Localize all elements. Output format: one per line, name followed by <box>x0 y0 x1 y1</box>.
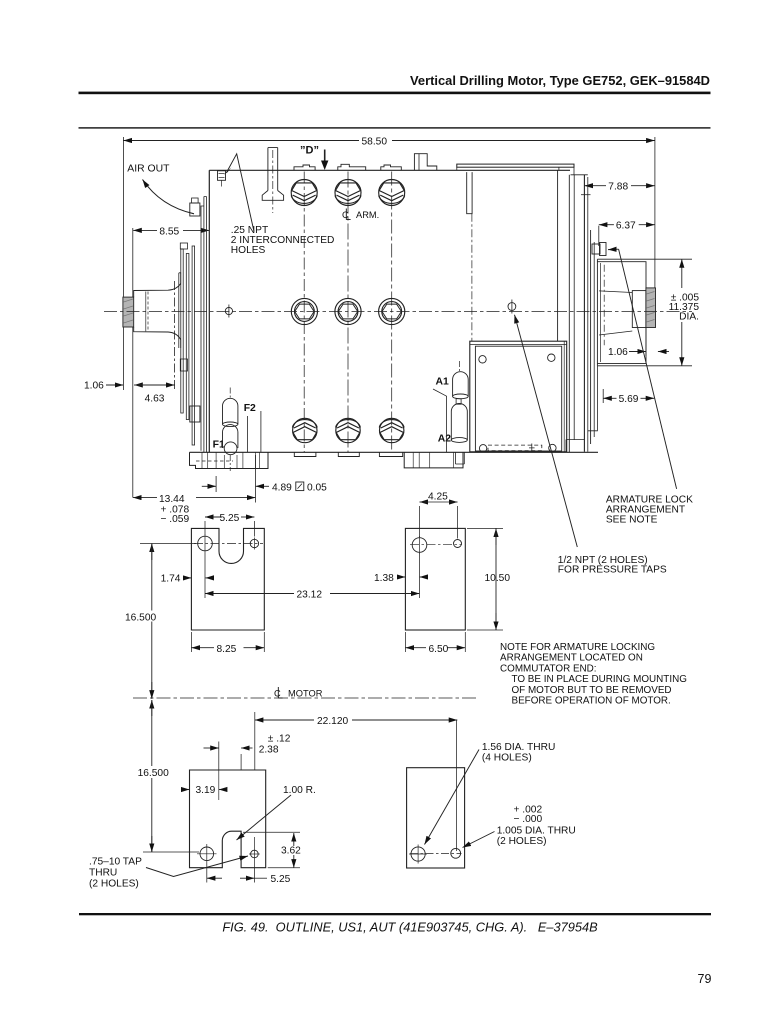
svg-text:3.62: 3.62 <box>281 846 301 857</box>
dim 22.120 <box>255 719 314 721</box>
bottom bolt 3 <box>379 418 404 442</box>
box dashed knockout <box>488 445 542 451</box>
big hole <box>200 847 214 861</box>
svg-text:4.63: 4.63 <box>145 394 165 405</box>
right plate small hole <box>454 540 462 548</box>
svg-text:(2 HOLES): (2 HOLES) <box>89 879 139 890</box>
svg-text:7.88: 7.88 <box>608 182 628 193</box>
br big hole <box>411 847 425 861</box>
end cap inner lines <box>599 291 632 293</box>
svg-text:± .12: ± .12 <box>268 734 291 745</box>
svg-text:.75–10 TAP: .75–10 TAP <box>89 857 142 868</box>
svg-text:1.56 DIA. THRU: 1.56 DIA. THRU <box>482 742 555 753</box>
dim 10.50 <box>495 528 497 545</box>
F lead lines <box>248 411 261 452</box>
svg-text:(4 HOLES): (4 HOLES) <box>482 753 532 764</box>
flange plate A <box>181 249 183 413</box>
left foot hidden line <box>196 460 233 462</box>
svg-text:F2: F2 <box>244 403 256 414</box>
cone section lines <box>145 292 147 332</box>
svg-text:Vertical Drilling Motor, Type: Vertical Drilling Motor, Type GE752, GEK… <box>410 73 710 88</box>
svg-text:16.500: 16.500 <box>125 613 156 624</box>
right foot verticals <box>413 452 453 468</box>
knockout cross <box>529 444 535 453</box>
svg-text:COMMUTATOR END:: COMMUTATOR END: <box>500 663 597 674</box>
A2 stud <box>451 404 467 441</box>
left foot <box>190 452 269 468</box>
flange plate D <box>201 206 204 451</box>
D down arrow <box>324 150 326 162</box>
end cap ring 1 <box>590 230 592 444</box>
svg-text:− .000: − .000 <box>514 814 543 825</box>
svg-text:ARM.: ARM. <box>356 210 379 220</box>
conduit box outer <box>470 341 567 452</box>
top bolt 1 <box>291 180 317 206</box>
bottom pads <box>294 452 402 456</box>
dim 4.89 sq 0.05 <box>202 485 216 487</box>
air out flow arrow <box>143 180 195 214</box>
bottom bolt 1 <box>292 418 317 442</box>
left plate small hole <box>250 539 258 547</box>
flange plate B <box>186 254 189 420</box>
dim 5.25 bottom <box>207 877 222 879</box>
svg-text:”D”: ”D” <box>300 145 319 157</box>
top bolt 3 <box>379 180 405 206</box>
svg-text:1.74: 1.74 <box>161 574 181 585</box>
left mounting plate <box>191 528 264 630</box>
F2 stud <box>223 398 238 424</box>
dim 5.69 <box>603 397 616 399</box>
plate holes centerline <box>194 543 263 545</box>
dim 16.500 lower <box>151 700 153 716</box>
svg-text:FOR PRESSURE TAPS: FOR PRESSURE TAPS <box>558 565 667 576</box>
ext line 8.55/13.44 <box>132 228 134 498</box>
svg-text:4.25: 4.25 <box>428 492 448 503</box>
svg-text:79: 79 <box>698 972 712 986</box>
svg-text:23.12: 23.12 <box>297 590 323 601</box>
dim 5.25 top <box>205 516 222 518</box>
top cover plate <box>457 164 574 167</box>
svg-text:2.38: 2.38 <box>259 745 279 756</box>
hub <box>632 291 646 328</box>
svg-text:1.00 R.: 1.00 R. <box>283 785 316 796</box>
body right edge <box>557 170 559 341</box>
bottom left plate <box>190 770 266 868</box>
svg-text:6.37: 6.37 <box>616 221 636 232</box>
top pad 1 <box>294 165 315 170</box>
svg-text:HOLES: HOLES <box>231 245 266 256</box>
svg-text:1.06: 1.06 <box>84 381 104 392</box>
br small hole <box>451 848 461 858</box>
conduit box right lines <box>563 341 565 452</box>
svg-text:THRU: THRU <box>89 868 117 879</box>
armature stub <box>646 288 656 328</box>
centerline marker left <box>225 307 232 314</box>
mid plug 1 <box>291 298 317 324</box>
dim 13.44 <box>133 497 157 499</box>
svg-text:22.120: 22.120 <box>317 716 348 727</box>
end frame foot <box>566 440 584 453</box>
F1 round end <box>224 442 237 455</box>
dim 11.375 DIA <box>681 259 683 288</box>
right mounting plate <box>405 528 465 630</box>
dim 3.62 <box>293 833 295 846</box>
right foot <box>404 452 463 468</box>
box screw BR <box>549 444 556 451</box>
leader V to npt boss <box>227 154 255 232</box>
svg-text:1.06: 1.06 <box>608 347 628 358</box>
box screw BL <box>479 445 486 452</box>
lifting lug <box>414 154 436 171</box>
svg-text:FIG. 49. OUTLINE, US1, AUT (4: FIG. 49. OUTLINE, US1, AUT (41E903745, C… <box>222 920 598 935</box>
svg-text:0.05: 0.05 <box>307 482 327 493</box>
svg-text:MOTOR: MOTOR <box>288 689 323 699</box>
svg-text:16.500: 16.500 <box>138 768 169 779</box>
svg-text:5.25: 5.25 <box>220 513 240 524</box>
box screw TL <box>479 356 486 363</box>
end frame tick <box>581 194 591 196</box>
right holes centerline <box>410 543 462 545</box>
MID_SECTION <box>125 492 687 707</box>
ext line shaft face <box>122 137 124 390</box>
top pad 2 <box>338 164 366 170</box>
dim 58.50 <box>123 140 359 142</box>
svg-text:NOTE FOR ARMATURE LOCKING: NOTE FOR ARMATURE LOCKING <box>500 642 655 653</box>
F stud centerline <box>229 388 231 399</box>
dim 23.12 <box>205 593 294 595</box>
right plate hole <box>412 538 427 553</box>
body left inner edge <box>206 197 208 453</box>
vent bar centerline <box>471 214 473 342</box>
MOTOR_BODY <box>104 148 692 453</box>
dim 8.25 <box>191 647 214 649</box>
svg-text:5.25: 5.25 <box>271 874 291 885</box>
flange top tab <box>180 243 187 249</box>
svg-text:− .059: − .059 <box>161 514 190 525</box>
npt boss <box>218 171 226 181</box>
centerline marker right <box>508 303 516 311</box>
lock bolt <box>592 244 600 254</box>
conduit box lip <box>470 344 567 346</box>
top thin rule <box>79 127 711 128</box>
base line <box>190 451 599 453</box>
svg-text:3.19: 3.19 <box>196 785 216 796</box>
note text <box>500 642 687 707</box>
air vent bolt top <box>190 203 200 216</box>
bolt column centerline 3 <box>391 172 393 453</box>
label C ARM <box>342 209 379 221</box>
dim 7.88 <box>584 185 606 187</box>
F lead bracket <box>190 406 200 422</box>
bolt column centerline 1 <box>303 172 305 453</box>
conduit box inner <box>475 346 561 451</box>
ext line right 58.50 <box>654 137 656 289</box>
svg-text:8.55: 8.55 <box>159 226 179 237</box>
A stud tails below base <box>456 452 465 464</box>
dim 4.63 <box>134 384 174 386</box>
svg-text:6.50: 6.50 <box>429 644 449 655</box>
dim 6.50 <box>405 647 426 649</box>
svg-text:AIR OUT: AIR OUT <box>127 164 170 175</box>
tap leader <box>146 856 248 877</box>
tap hole <box>251 850 259 858</box>
svg-text:TO BE IN PLACE DURING MOUNTING: TO BE IN PLACE DURING MOUNTING <box>512 674 687 685</box>
main centerline <box>104 311 692 313</box>
label C MOTOR <box>274 687 323 699</box>
MAIN_DIMS <box>84 136 699 575</box>
svg-text:A2: A2 <box>438 434 452 445</box>
left plate hole <box>198 536 213 551</box>
svg-text:1.005 DIA. THRU: 1.005 DIA. THRU <box>497 825 576 836</box>
bottom bolt 2 <box>336 418 361 442</box>
end frame face <box>583 175 585 452</box>
box screw TR <box>548 354 555 361</box>
caption rule <box>79 913 711 915</box>
shaft taper cone <box>134 284 181 340</box>
svg-text:ARRANGEMENT LOCATED ON: ARRANGEMENT LOCATED ON <box>500 653 643 664</box>
svg-text:C: C <box>274 689 281 699</box>
A bracket <box>433 389 447 452</box>
drain tube <box>268 148 278 191</box>
dim 6.37 <box>599 224 614 226</box>
svg-text:OF MOTOR BUT TO BE REMOVED: OF MOTOR BUT TO BE REMOVED <box>512 685 672 696</box>
LOWER_PLATES <box>89 700 576 890</box>
bottom right plate <box>407 768 465 868</box>
svg-text:A1: A1 <box>436 377 450 388</box>
end cap lower step <box>588 366 598 431</box>
svg-text:10.50: 10.50 <box>485 573 511 584</box>
pressure tap leader <box>515 315 578 547</box>
motor centerline <box>133 697 478 699</box>
dim 4.25 <box>420 501 428 503</box>
svg-text:8.25: 8.25 <box>217 644 237 655</box>
svg-text:13.44: 13.44 <box>159 494 185 505</box>
mid plug 3 <box>379 298 405 324</box>
svg-text:SEE NOTE: SEE NOTE <box>606 515 658 526</box>
dim 8.55 <box>133 229 157 231</box>
vent bar <box>467 172 472 214</box>
left foot verticals <box>202 452 259 468</box>
flange plate C <box>192 246 195 445</box>
body top edge <box>209 169 570 171</box>
end frame top edge <box>571 174 588 176</box>
bearing cap plate <box>179 273 181 348</box>
end cap face <box>597 259 646 366</box>
mid plug 2 <box>335 298 361 324</box>
top bolt 2 <box>335 180 361 206</box>
bolt column centerline 2 <box>347 172 349 453</box>
A1 stud <box>453 372 469 397</box>
br holes centerline <box>410 853 462 855</box>
svg-text:BEFORE OPERATION OF MOTOR.: BEFORE OPERATION OF MOTOR. <box>512 696 671 707</box>
svg-text:5.69: 5.69 <box>619 394 639 405</box>
1.005 leader <box>463 832 495 848</box>
svg-text:58.50: 58.50 <box>362 136 388 147</box>
F1 stud <box>223 425 238 448</box>
svg-text:F1: F1 <box>213 440 225 451</box>
flange bottom tab <box>180 359 187 371</box>
armature lock leader <box>619 249 677 489</box>
svg-text:DIA.: DIA. <box>679 312 699 323</box>
svg-text:1.38: 1.38 <box>374 573 394 584</box>
body left step <box>204 197 207 453</box>
shaft end block <box>123 297 134 327</box>
A stud centerline <box>459 361 461 371</box>
1.56 leader <box>425 750 480 845</box>
dim 16.500 mid <box>151 544 153 561</box>
svg-text:(2 HOLES): (2 HOLES) <box>497 836 547 847</box>
header thick rule <box>79 92 711 95</box>
svg-text:4.89: 4.89 <box>272 482 292 493</box>
top pad 3 <box>381 165 402 170</box>
BOLTS <box>291 180 405 443</box>
end cap ring 2 <box>593 242 595 437</box>
body left edge <box>208 170 210 452</box>
